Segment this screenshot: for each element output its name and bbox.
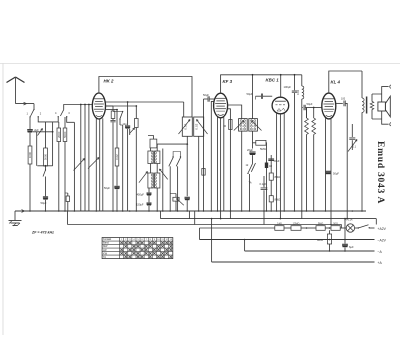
tube KF3 [214,93,228,118]
wire IFT1 primary top [183,102,185,117]
wire cap row to mixer [33,131,53,133]
wire v67.5 bus to rail C [67,211,69,225]
svg-text:12: 12 [246,164,249,167]
wire KF3 screen [228,105,242,119]
svg-text:5000: 5000 [44,153,48,160]
svg-text:100: 100 [341,98,346,101]
contact table [102,238,173,259]
svg-text:12MΩ: 12MΩ [293,222,300,225]
wire IFT2 secondary riser [252,75,254,119]
capacitor C1 2uF [29,117,31,129]
svg-text:TA: TA [103,256,106,259]
svg-text:HK 2: HK 2 [104,79,115,84]
wire KF3 top cap loop [221,75,302,93]
wire screen h106 [105,105,111,107]
trimmer arrow T4 [160,169,168,179]
wire [340,227,346,229]
output transformer primary [361,71,363,98]
wire h165.8 [37,165,52,167]
wire v88.9 [88,105,90,212]
resistor R8 8M upper [270,155,272,173]
coil L3 2000 [58,122,60,128]
svg-text:3MΩ: 3MΩ [317,238,323,242]
svg-text:100µF: 100µF [284,85,292,89]
svg-text:50µF: 50µF [203,93,209,97]
speaker terminal bottom [382,119,389,124]
capacitor C8 [186,144,188,196]
wire contact2 down and right [38,117,58,122]
svg-text:TA: TA [249,182,252,185]
tube KBC1 pins [276,113,278,211]
IF transformer IFT2 secondary [249,119,258,132]
svg-text:20µF: 20µF [247,148,253,152]
resistor R2 screen [112,106,114,111]
capacitor C4 5000 [116,166,118,186]
IF transformer IFT1 secondary [194,117,204,136]
wire KBC1 grid cap [260,94,262,99]
rail B 218.6 [161,218,377,220]
wire KL4 top to B+ [329,71,362,93]
wire v294.5 with capacitor C14 [294,75,296,90]
svg-text:1: 1 [27,112,29,116]
capacitor C6 450uF [148,188,150,192]
svg-text:5MΩ: 5MΩ [318,222,323,225]
coil L2 5000 [45,122,47,148]
wire v199.5 [199,228,201,240]
capacitor C7 150uF [148,196,150,203]
rail -A2V [200,239,375,241]
svg-text:2000: 2000 [57,131,61,138]
IF transformer IFT1 primary [182,117,192,136]
wire L6 top up [148,136,153,140]
wire [301,227,316,229]
switch S3 [45,166,47,170]
svg-text:50µF: 50µF [333,172,339,176]
wire v189.4 below bus [188,211,190,219]
svg-text:450µF: 450µF [137,192,145,196]
wire [325,227,331,229]
resistor R6 5M [253,142,256,144]
svg-text:Emud 3043 A: Emud 3043 A [375,141,386,204]
resistor R14 5M [316,226,325,231]
svg-text:8MΩ: 8MΩ [275,175,281,179]
wire antenna to switch [16,103,35,105]
IFT1 trimmer arrow 2 [197,120,208,135]
svg-text:ZF = 473 kHz: ZF = 473 kHz [31,231,54,235]
svg-text:0.02: 0.02 [115,154,119,160]
wire v170.2 [169,166,171,211]
svg-text:1000: 1000 [28,151,32,158]
rail -A [245,250,375,252]
switch S1 contact 2 [38,116,39,117]
output transformer core [366,97,368,114]
speaker loop [372,94,382,119]
wire v129.7 [129,129,131,135]
tube HK2 pins [95,118,97,211]
resistor R9 8M lower [270,180,272,196]
resistor R13 12M [291,226,301,231]
capacitor C17 0.1uF tone [351,124,353,137]
tube KL4 pins [325,118,327,211]
wire v162.8 [162,149,164,212]
svg-text:0.02: 0.02 [195,123,199,129]
svg-text:50µF: 50µF [307,102,313,106]
page edge line left [2,64,4,336]
svg-text:50µF: 50µF [104,186,110,190]
wire IFT2 secondary bottom [252,131,254,148]
svg-text:0.02: 0.02 [183,123,187,129]
output transformer secondary [371,94,373,102]
svg-text:+A: +A [378,261,383,265]
resistor R15 50 [331,226,340,231]
wire KF3 suppressor drop [228,109,231,211]
switch S5 blades [169,158,173,167]
svg-text:8MΩ: 8MΩ [275,198,281,202]
rail +A [212,261,375,263]
capacitor C2 50uF [45,177,47,197]
antenna A1 [7,77,25,83]
coil L1 1000 [28,146,32,164]
wire v264 below bus [263,211,265,225]
svg-text:30: 30 [223,124,226,128]
wire v122.7 [122,125,124,211]
tube KF3 pins [217,117,219,211]
resistor R10 grid leak [306,108,308,119]
capacitor C9 50uF [203,99,205,211]
ground symbol [14,211,16,221]
svg-text:5MΩ: 5MΩ [260,147,266,151]
wire KL4 grid [314,107,322,109]
wire anode h102 [105,101,184,103]
switch S4 [113,111,123,113]
capacitor C3 [112,119,114,121]
rail C 224.5 [68,224,342,226]
switch S1 blade [31,109,34,116]
svg-text:0.45: 0.45 [277,222,282,225]
tube HK2 [92,93,105,119]
IFT1 trimmer arrow [179,120,191,135]
coil L4 5000 [64,117,66,128]
wire v74.4 to bus [73,122,75,211]
wires pair upper to lower [150,164,152,174]
switch S7 [355,227,358,229]
resistor R17 30 [229,120,232,130]
svg-text:2: 2 [40,112,42,116]
capacitor C10 20uF [249,151,255,153]
IF transformer IFT2 primary [239,119,248,132]
svg-text:+A2V: +A2V [378,227,387,231]
svg-text:40: 40 [269,164,272,168]
resistor R12 0.45 [275,226,284,231]
resistor R3 [135,106,137,119]
svg-text:0.1µF: 0.1µF [260,182,267,186]
oscillator coil pair lower [148,173,153,188]
wire h144.1 [157,143,187,145]
speaker terminal top [382,87,389,94]
resistor R1 1M [67,193,69,196]
wire HK2 top cap loop [99,77,192,118]
wire v301.8 below bus [301,211,303,219]
resistor R5 [202,169,205,176]
svg-text:−A: −A [378,250,383,254]
svg-text:0.1: 0.1 [353,146,357,149]
svg-text:5000: 5000 [63,131,67,138]
wire v177.6 [177,166,179,211]
svg-text:−A2V: −A2V [378,238,387,242]
trimmer arrow T1 [38,129,43,136]
wire L1 to bus [29,164,31,211]
coil L7 0.02 choke [301,75,303,86]
wire switch S2 to HK2 grid [64,105,93,110]
trimmer arrow T2 [130,128,135,134]
resistor R16 3M [329,230,331,234]
wire KL4 screen [336,102,343,104]
wire contact3 down [67,117,75,122]
rail D 228 left [200,227,275,229]
svg-text:0.02: 0.02 [296,89,300,95]
IFT2 trimmer arrow 2 [252,121,262,131]
svg-text:50Ω: 50Ω [333,222,338,225]
capacitor C5 10u [127,102,129,125]
capacitor C16 50uF cathode [325,170,331,172]
coil L5 0.02 [116,110,118,148]
wire v211.6 [211,219,213,262]
wire v36.7 [36,132,38,166]
wire [284,227,291,229]
IFT2 trimmer arrow [234,121,244,131]
lamp LA1 [346,224,354,232]
svg-text:50µF: 50µF [247,92,253,96]
wire IFT2 primary bottom [241,131,243,211]
wire KF3 grid [211,101,213,211]
wire v376.3 [375,219,377,225]
resistor R7 dark [265,163,268,169]
resistor R11 grid stopper [313,108,315,119]
svg-text:3: 3 [68,111,70,115]
capacitor C15 50uF grid [302,107,303,109]
svg-text:6µF: 6µF [349,245,354,249]
capacitor C18 6uF [344,219,346,244]
speaker LS1 [378,102,386,111]
wire v85 [84,105,86,212]
tube KBC1 [272,97,289,114]
wire screen h109.6 [105,109,117,111]
wire v52.6 [52,122,54,166]
tube KL4 [322,93,336,119]
tuning capacitor arrows left gang [74,159,85,171]
wire KBC1 top loop [280,75,282,97]
wire v80.8 [80,105,82,212]
svg-text:KF 3: KF 3 [223,79,233,84]
trimmer arrow T3 [139,172,148,183]
coil L6 top [150,139,157,148]
page edge line horizontal [0,63,400,65]
wire v194.7 below bus [194,211,196,225]
junction dots on bus [29,210,31,212]
wire v160.5 bus to rail B [160,211,162,219]
potentiometer R4 1M [173,197,179,201]
wire IFT1 primary bottom [186,136,188,144]
svg-text:10µ: 10µ [123,123,128,126]
svg-text:4: 4 [55,111,57,115]
switch S2 blade [60,110,63,116]
svg-text:KBC 1: KBC 1 [266,78,280,83]
oscillator coil pair upper [148,151,153,164]
wire v230.4 below bus [229,211,231,219]
wire v157.2 to bus [156,188,158,211]
wire v244.6 [244,240,246,252]
ground bus [15,210,366,212]
switch S6 blades [248,164,252,173]
svg-text:KL 4: KL 4 [331,80,341,85]
svg-text:150µF: 150µF [136,203,144,207]
wire IFT1 secondary bottom [198,136,200,211]
